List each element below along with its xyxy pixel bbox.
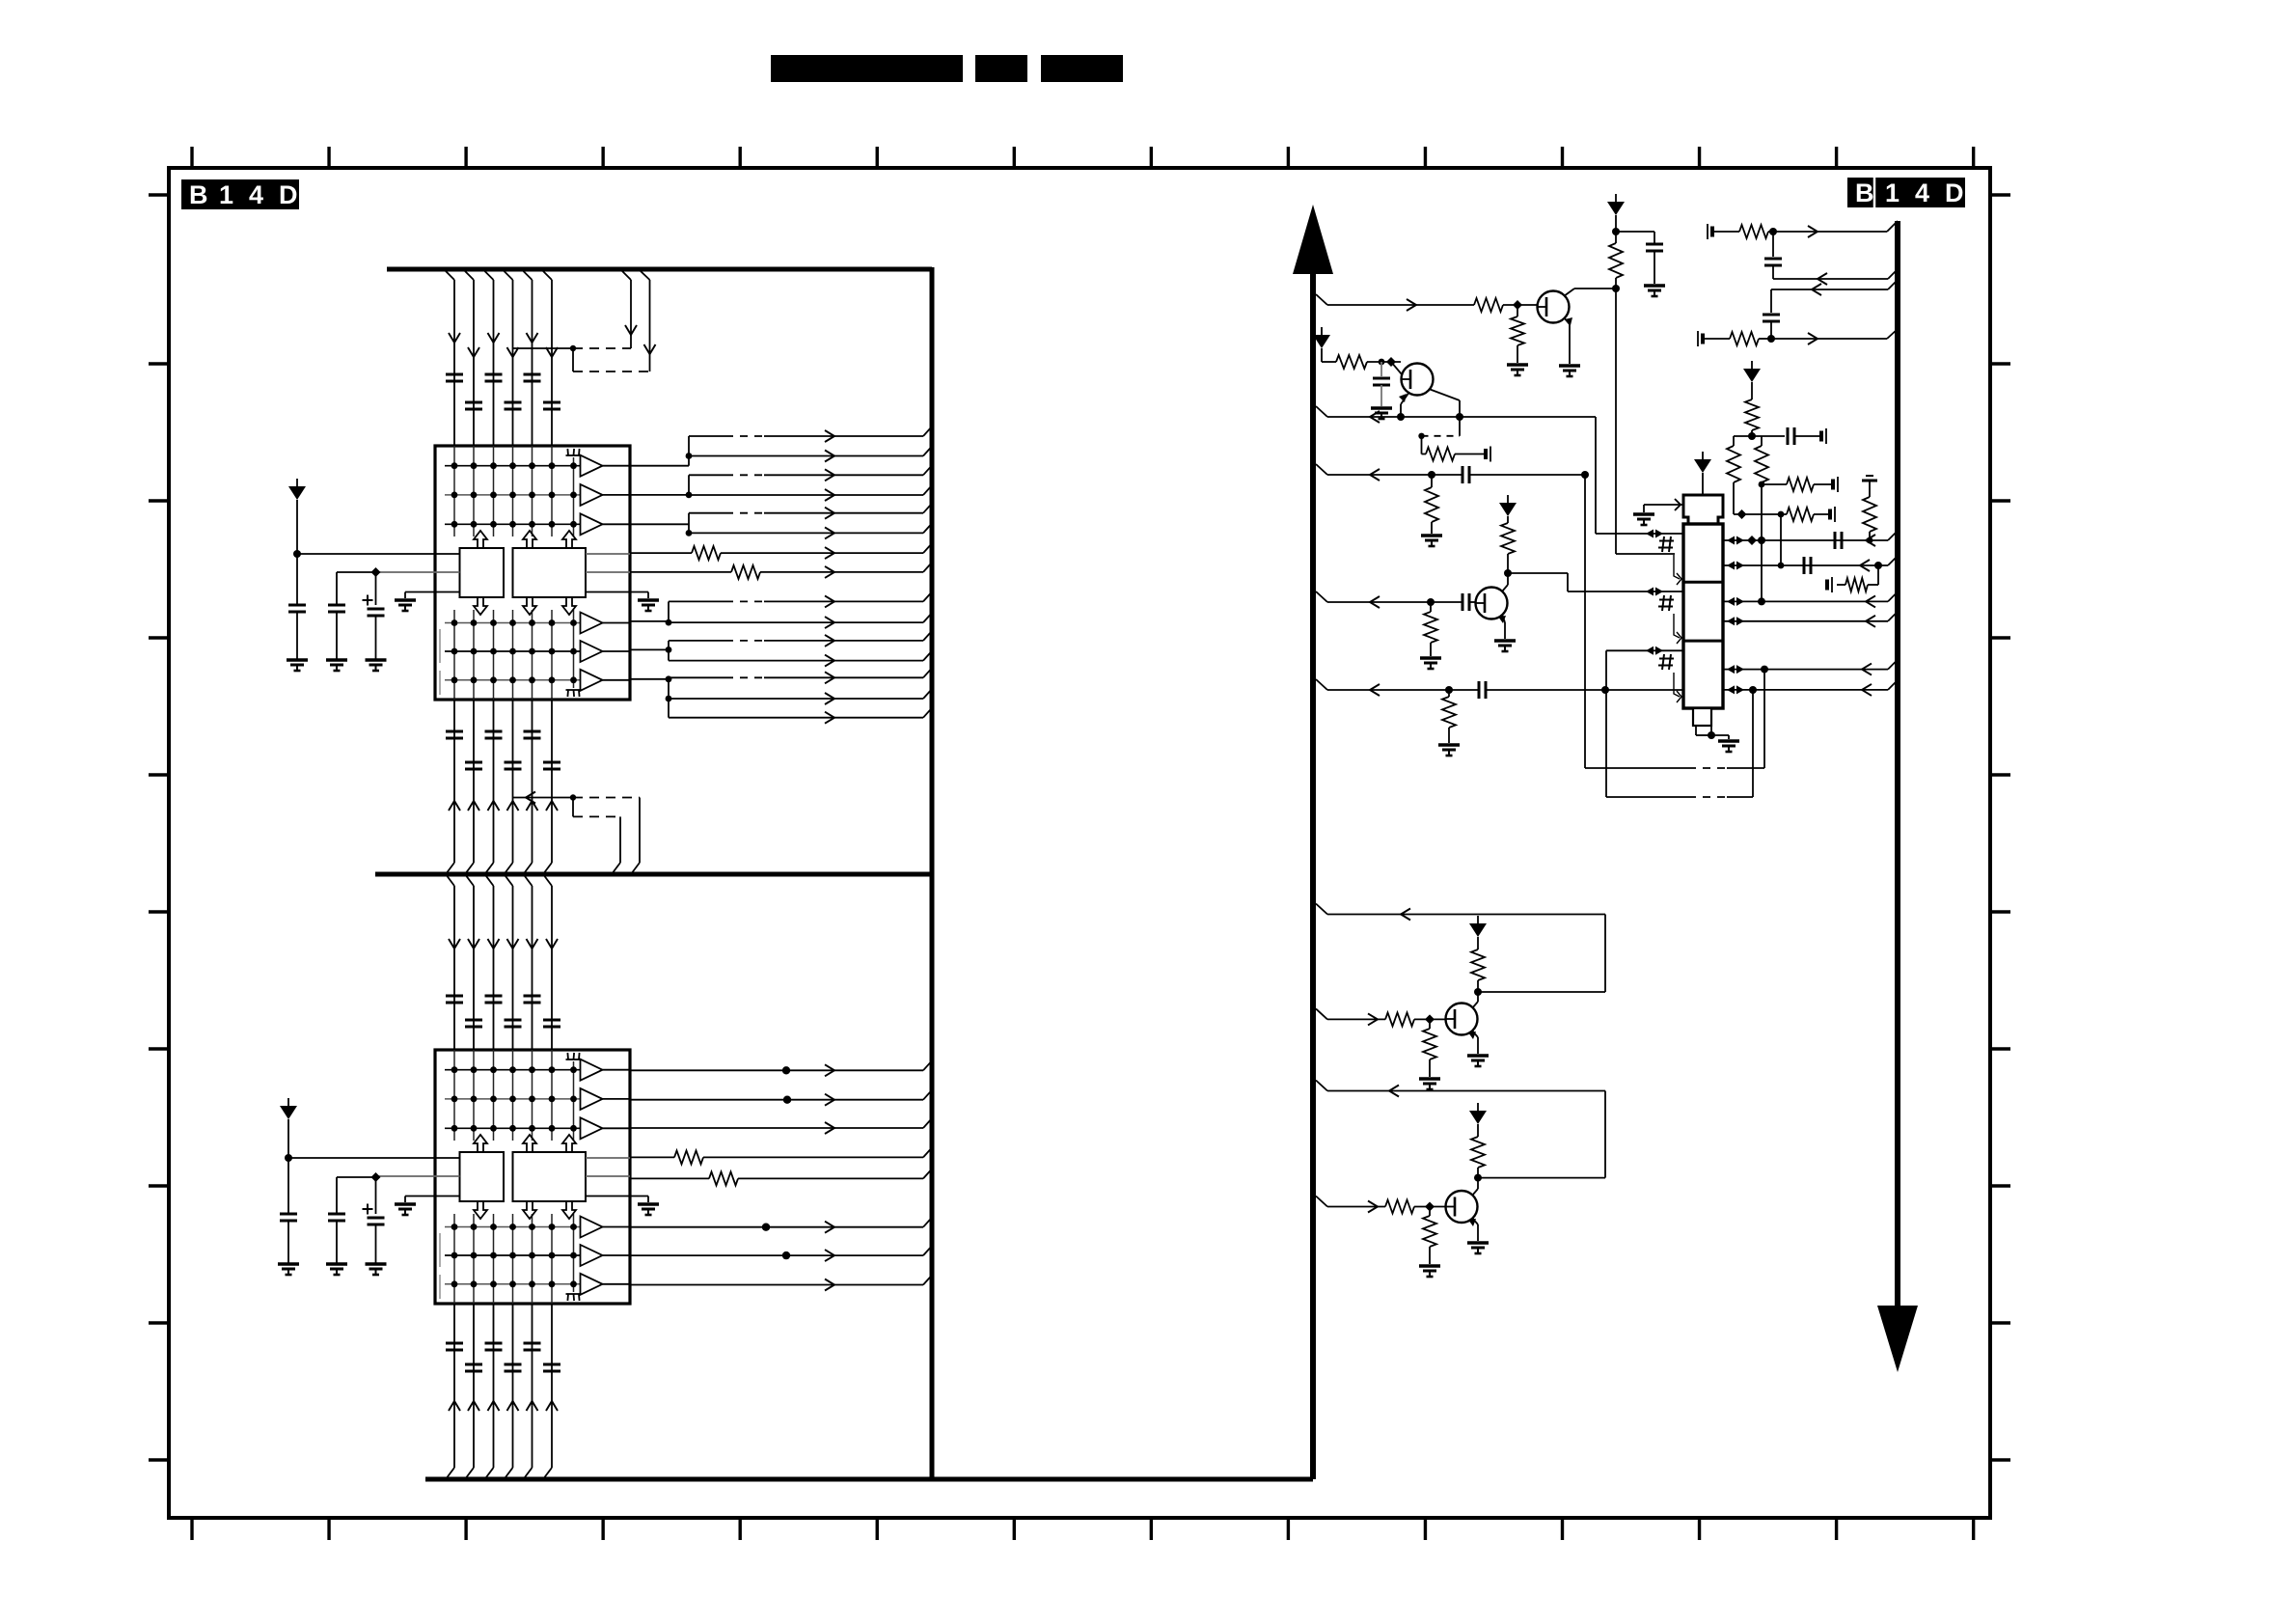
CN1 pin 1R wire — [1723, 531, 1898, 549]
IC U1 internal signal grid — [454, 446, 574, 700]
IC U2 right ground pin — [586, 1197, 659, 1216]
resistor R26 — [1734, 508, 1832, 521]
IC U1 block data-flow arrows — [474, 531, 576, 615]
IC1 fan wire 5a (dashed) to output bus — [669, 631, 932, 646]
ground (R8) — [1438, 745, 1460, 756]
bus arrow down (return rail) shaft — [1895, 221, 1900, 1306]
IC1 fan wire 3b to output bus — [689, 523, 932, 538]
off-board stub (R5) — [1486, 447, 1490, 462]
dashed option link under Q2 — [1418, 417, 1460, 439]
bus line bottom — [425, 1477, 1313, 1482]
bus tap wire Q3 base — [1316, 1008, 1385, 1025]
option link wire B (top, dashed jumper) — [573, 271, 656, 371]
Q1 collector wire — [1564, 285, 1620, 296]
ground (Q5 emitter) — [1494, 641, 1516, 651]
supply arrow (Q2 bias) — [1313, 327, 1330, 348]
wire input line 1 (top bus to IC1) with series capacitor — [446, 271, 463, 446]
IC U2 buffer amplifier row 3 — [445, 1117, 630, 1139]
bus arrow down (return rail) head — [1877, 1306, 1918, 1372]
wire collector rail to connector option pin — [1616, 553, 1675, 555]
capacitor C6 chain — [1764, 232, 1782, 279]
CN1 pin 1 direction marker — [1646, 530, 1663, 538]
CN1 pin 4R wire — [1723, 612, 1898, 627]
IC U2 buffer amplifier row 2 — [445, 1088, 630, 1110]
wire Q2 output to connector pin 1 — [1401, 417, 1683, 534]
left edge tick marks — [149, 195, 169, 1460]
page code label B14D top-right — [1847, 178, 1965, 207]
IC U2 internal signal grid — [454, 1050, 574, 1304]
supply arrow (Q4) — [1469, 1103, 1487, 1124]
resistor R3 (collector load) — [1609, 215, 1623, 554]
CN1 pin 2 direction marker — [1646, 588, 1663, 596]
IC U1 left ground pin — [395, 592, 460, 612]
IC1 output row 4 fork — [630, 601, 671, 625]
svg-text:D: D — [1945, 179, 1964, 207]
title bar block 1 — [771, 55, 963, 82]
resistor R28 (Q5 collector load) — [1501, 516, 1515, 573]
connector CN1 bottom tab — [1693, 708, 1711, 726]
wire line 4 (middle bus to IC2) with series capacitor — [505, 886, 522, 1050]
IC1 fan wire 4a (dashed) to output bus — [669, 591, 932, 607]
Q3 collector loop wire — [1474, 915, 1605, 997]
IC U2 internal block B — [513, 1152, 587, 1201]
wire line 3 (IC2 to bottom bus) with series capacitor — [485, 1304, 503, 1479]
CN1 pin 3 option tag # — [1658, 654, 1681, 702]
CN1 pin 3 direction marker — [1646, 646, 1663, 655]
option link wire A (top, dashed jumper) — [513, 271, 638, 371]
IC1 fan wire 6b to output bus — [669, 689, 932, 704]
capacitor C4 in line — [1462, 593, 1476, 611]
bus line right vertical (output bus) — [930, 267, 935, 1481]
wire line 1 (middle bus to IC2) with series capacitor — [446, 886, 463, 1050]
IC1 fan wire 5b to output bus — [669, 651, 932, 667]
Q2 emitter wire — [1397, 392, 1409, 421]
IC1 fan wire 4b to output bus — [669, 613, 932, 628]
transistor Q1 — [1538, 291, 1570, 323]
IC U1 internal block A — [460, 548, 505, 597]
Q2 collector wire — [1429, 389, 1463, 421]
IC2 fan wire 3 to output bus — [630, 1118, 932, 1134]
off-board stub (C8) — [1821, 428, 1826, 444]
decoupling capacitor C-2b — [326, 1177, 376, 1275]
resistor R5 — [1422, 436, 1487, 461]
ground (Q1 emitter) — [1559, 366, 1580, 376]
series resistor R11 wire to output bus — [630, 543, 932, 560]
IC U1 output row A stub — [586, 553, 630, 555]
capacitor C8 — [1788, 427, 1823, 445]
IC U2 left edge bracket — [439, 1233, 441, 1299]
svg-text:1: 1 — [1885, 179, 1900, 207]
IC U1 buffer amplifier row 3 — [445, 513, 630, 535]
wire line 6 (IC2 to bottom bus) with series capacitor — [543, 1304, 560, 1479]
node Q2 base junction — [1367, 357, 1402, 374]
resistor R18 (W1) — [1714, 225, 1777, 238]
Q3 collector lead — [1472, 992, 1478, 1008]
bus tap wire W492 — [1316, 464, 1462, 481]
IC1 output row 2 fork — [630, 475, 692, 498]
IC U1 supply row wire — [297, 553, 460, 555]
resistor R24 (right leg) — [1755, 436, 1768, 601]
CN1 pin 2 option tag # — [1658, 595, 1681, 644]
wire input line 4 (top bus to IC1) with series capacitor — [505, 271, 522, 446]
inner loop link (connector pin 3) — [1606, 650, 1757, 797]
wire input line 5 (top bus to IC1) with series capacitor — [524, 271, 541, 446]
wire line 1 (IC1 to middle bus) with series capacitor — [446, 698, 463, 886]
capacitor C3 in line — [1462, 466, 1585, 483]
wire R26 node to pin 2R — [1780, 514, 1782, 565]
capacitor C1 to ground — [1616, 232, 1663, 284]
IC U1 buffer amplifier row 1 — [445, 455, 630, 477]
ground (R16) — [1419, 1266, 1440, 1277]
transistor Q5 — [1476, 588, 1508, 619]
svg-text:1: 1 — [219, 180, 233, 209]
connector CN1 segment divider 1 — [1683, 581, 1723, 584]
ground (R6) — [1421, 536, 1442, 546]
wire line 3 (middle bus to IC2) with series capacitor — [485, 886, 503, 1050]
IC U2 reference row wire — [376, 1175, 460, 1177]
IC1 fan wire 2b to output bus — [689, 485, 932, 501]
resistor R25 — [1762, 478, 1835, 491]
ground (CN1 shell) — [1633, 514, 1654, 525]
connector CN1 body — [1683, 524, 1723, 708]
resistor R1 (Q1 base series) — [1474, 298, 1537, 312]
IC U2 internal block A — [460, 1152, 505, 1201]
supply arrow and decoupling capacitor C-1a — [287, 479, 308, 671]
wire line 2 (middle bus to IC2) with series capacitor — [465, 886, 482, 1050]
IC1 output row 5 fork — [630, 641, 671, 661]
title bar block 2 — [975, 55, 1027, 82]
IC U1 shield marker top — [566, 449, 582, 455]
wire C7 to bus-2 — [1771, 280, 1898, 295]
Q1 emitter wire — [1564, 317, 1572, 364]
IC U1 buffer amplifier row 5 — [445, 641, 630, 662]
electrolytic capacitor C-1c — [363, 567, 387, 671]
resistor R20 (bias) — [1745, 382, 1759, 436]
bus tap wire W432 — [1316, 406, 1400, 423]
IC U1 package outline — [435, 446, 630, 700]
IC1 fan wire 3a (dashed) to output bus — [689, 504, 932, 519]
IC1 fan wire 6a (dashed) to output bus — [669, 668, 932, 683]
IC U1 buffer amplifier row 2 — [445, 484, 630, 506]
off-board stub (R26) — [1830, 507, 1835, 522]
IC U2 package outline — [435, 1050, 630, 1304]
IC U1 reference row wire — [376, 571, 460, 573]
supply arrow (Q1 collector rail) — [1607, 194, 1625, 215]
IC1 output row 3 fork — [630, 513, 692, 536]
resistor R4 (Q2 base) — [1336, 355, 1367, 369]
CN1 top-left ground wire — [1644, 499, 1683, 512]
wire line 2 (IC2 to bottom bus) with series capacitor — [465, 1304, 482, 1479]
wire W2 to bus-2 — [1771, 329, 1898, 344]
resistor R15 (Q4 base series) — [1385, 1200, 1445, 1214]
resistor R19 (W2) — [1705, 332, 1775, 345]
CN1 pin 5R wire — [1723, 660, 1898, 675]
resistor R2 (Q1 base pulldown) — [1511, 300, 1524, 363]
electrolytic capacitor C-2c — [363, 1172, 387, 1275]
CN1 pin 2R wire — [1723, 556, 1898, 574]
stub-top resistor R27 — [1862, 476, 1877, 540]
IC2 fan wire 2 to output bus — [630, 1090, 932, 1106]
supply arrow and decoupling capacitor C-2a — [278, 1098, 299, 1275]
svg-text:4: 4 — [1915, 179, 1929, 207]
bus tap wire W947 — [1316, 904, 1605, 921]
ground (CN1) — [1718, 741, 1739, 752]
IC U2 left ground pin — [395, 1197, 460, 1216]
wire Q2 bias — [1322, 348, 1336, 362]
svg-text:B: B — [1855, 179, 1874, 207]
transistor Q2 — [1402, 364, 1434, 396]
IC U2 buffer amplifier row 6 — [445, 1274, 630, 1295]
IC U1 left edge bracket — [439, 629, 441, 695]
IC1 fan wire 2a (dashed) to output bus — [689, 465, 932, 481]
wire line 3 (IC1 to middle bus) with series capacitor — [485, 698, 503, 886]
bus tap wire to Q1 base — [1316, 294, 1474, 311]
series resistor R22 wire to output bus — [630, 1169, 932, 1185]
Q5 collector wire — [1502, 569, 1683, 591]
CN1 pin 3R wire — [1723, 591, 1898, 607]
transistor Q3 — [1446, 1004, 1478, 1035]
ground (R2) — [1507, 365, 1528, 375]
supply arrow (bias network) — [1743, 361, 1761, 382]
CN1 pin 6R wire — [1723, 680, 1898, 696]
wire line 6 (middle bus to IC2) with series capacitor — [543, 886, 560, 1050]
resistor R10 (Q3 base series) — [1385, 1012, 1445, 1026]
top edge tick marks — [192, 147, 1974, 168]
IC U1 output row B stub — [586, 571, 630, 573]
IC U2 shield marker bottom — [566, 1294, 582, 1301]
CN1 pin 1 option tag # — [1658, 536, 1681, 585]
svg-text:B: B — [189, 180, 208, 209]
off-board stub (R17) — [1827, 577, 1832, 592]
resistor R13 (Q3 base pulldown) — [1423, 1019, 1436, 1077]
Q4 collector lead — [1472, 1178, 1478, 1196]
capacitor C7 chain — [1763, 289, 1780, 339]
wire line 5 (IC1 to middle bus) with series capacitor — [524, 698, 541, 886]
IC U2 supply row wire — [288, 1157, 460, 1159]
resistor R16 (Q4 base pulldown) — [1423, 1207, 1436, 1265]
resistor R7 (pulldown) — [1424, 598, 1437, 656]
off-board stub (W2) — [1698, 331, 1703, 346]
svg-text:4: 4 — [249, 180, 263, 209]
supply arrow (CN1) — [1694, 452, 1711, 495]
IC2 fan wire 6 to output bus — [630, 1276, 932, 1291]
resistor R23 (left leg) — [1727, 436, 1740, 514]
bus arrow up (supply rail) head — [1293, 205, 1333, 274]
wire line 5 (IC2 to bottom bus) with series capacitor — [524, 1304, 541, 1479]
bus arrow up (supply rail) shaft — [1310, 272, 1316, 1479]
wire line 5 (middle bus to IC2) with series capacitor — [524, 886, 541, 1050]
off-board stub (W1) — [1708, 224, 1712, 239]
wire input line 3 (top bus to IC1) with series capacitor — [485, 271, 503, 446]
bus tap wire W715 — [1316, 679, 1479, 696]
resistor R8 (pulldown) — [1442, 686, 1456, 743]
IC1 fan wire 1a (dashed) to output bus — [689, 426, 932, 442]
wire C6 to bus-2 — [1773, 269, 1898, 285]
Q3 emitter lead — [1468, 1031, 1478, 1054]
bus tap wire W624 — [1316, 591, 1462, 608]
bottom edge tick marks — [192, 1518, 1974, 1540]
IC U2 buffer amplifier row 1 — [445, 1059, 630, 1081]
ground (R7) — [1420, 658, 1441, 669]
decoupling capacitor C-1b — [326, 572, 376, 671]
IC2 fan wire 4 to output bus — [630, 1218, 932, 1233]
ground (Q3 emitter) — [1467, 1056, 1489, 1066]
bus tap wire Q4 base — [1316, 1197, 1385, 1213]
IC2 fan wire 5 to output bus — [630, 1246, 932, 1261]
page code label B14D top-left — [181, 179, 299, 209]
border frame — [169, 168, 1990, 1518]
wire W1 to bus-2 top — [1773, 221, 1898, 237]
svg-text:D: D — [279, 180, 298, 209]
off-board stub (R25) — [1833, 477, 1838, 492]
connector CN1 housing top — [1683, 495, 1723, 524]
wire line 4 (IC2 to bottom bus) with series capacitor — [505, 1304, 522, 1479]
option link wire D (bottom, dashed jumper) — [573, 798, 620, 875]
IC2 fan wire 1 to output bus — [630, 1060, 932, 1076]
IC U2 buffer amplifier row 5 — [445, 1245, 630, 1266]
IC U2 block data-flow arrows — [474, 1135, 576, 1219]
bias node wire — [1734, 432, 1785, 440]
resistor R17 chain (pin 2R) — [1837, 565, 1878, 591]
right edge tick marks — [1990, 195, 2010, 1460]
resistor R9 (Q3 collector load) — [1471, 937, 1485, 992]
loop wire W492 to connector (dashed return) — [1581, 471, 1768, 768]
IC1 fan wire 6c to output bus — [669, 708, 932, 724]
capacitor C2 (Q2 base) — [1373, 362, 1390, 406]
Q5 emitter wire — [1498, 615, 1506, 639]
wire line 4 (IC1 to middle bus) with series capacitor — [505, 698, 522, 886]
resistor R6 (pulldown) — [1425, 471, 1438, 534]
IC U2 shield marker top — [566, 1053, 582, 1059]
IC U2 output row A stub — [586, 1157, 630, 1159]
IC U1 buffer amplifier row 4 — [445, 613, 630, 634]
bus line top (node to IC1 inputs) — [387, 267, 932, 272]
Q4 emitter lead — [1468, 1218, 1478, 1241]
IC U1 buffer amplifier row 6 — [445, 670, 630, 691]
wire line 1 (IC2 to bottom bus) with series capacitor — [446, 1304, 463, 1479]
wire input line 2 (top bus to IC1) with series capacitor — [465, 271, 482, 446]
series resistor R21 wire to output bus — [630, 1147, 932, 1164]
title bar block 3 — [1041, 55, 1123, 82]
ground (R13) — [1419, 1079, 1440, 1089]
ground (C2) — [1371, 408, 1392, 419]
resistor R14 (Q4 collector load) — [1471, 1124, 1485, 1178]
Q4 collector loop wire — [1474, 1091, 1605, 1182]
IC U1 right ground pin — [586, 592, 659, 612]
transistor Q4 — [1446, 1191, 1478, 1223]
IC1 output row 1 fork — [630, 436, 692, 466]
capacitor C5 in line — [1479, 681, 1683, 699]
option link wire C (bottom, dashed jumper) — [513, 792, 641, 875]
wire line 6 (IC1 to middle bus) with series capacitor — [543, 698, 560, 886]
ground (C1) — [1644, 286, 1665, 296]
IC U2 buffer amplifier row 4 — [445, 1217, 630, 1238]
wire input line 6 (top bus to IC1) with series capacitor — [543, 271, 560, 446]
IC U2 output row B stub — [586, 1175, 630, 1177]
connector CN1 segment divider 2 — [1683, 640, 1723, 643]
wire line 2 (IC1 to middle bus) with series capacitor — [465, 698, 482, 886]
ground (Q4 emitter) — [1467, 1243, 1489, 1253]
IC U1 shield marker bottom — [566, 690, 582, 697]
bus tap wire W1130 — [1316, 1081, 1605, 1097]
supply arrow (Q3) — [1469, 916, 1487, 937]
IC1 fan wire 1b to output bus — [689, 447, 932, 462]
series resistor R12 wire to output bus — [630, 563, 932, 579]
bus line middle — [375, 872, 932, 877]
supply arrow (Q5 collector) — [1499, 495, 1517, 516]
IC U1 internal block B — [513, 548, 587, 597]
connector CN1 ground wire — [1696, 726, 1729, 739]
IC1 output row 6 fork — [630, 675, 671, 717]
